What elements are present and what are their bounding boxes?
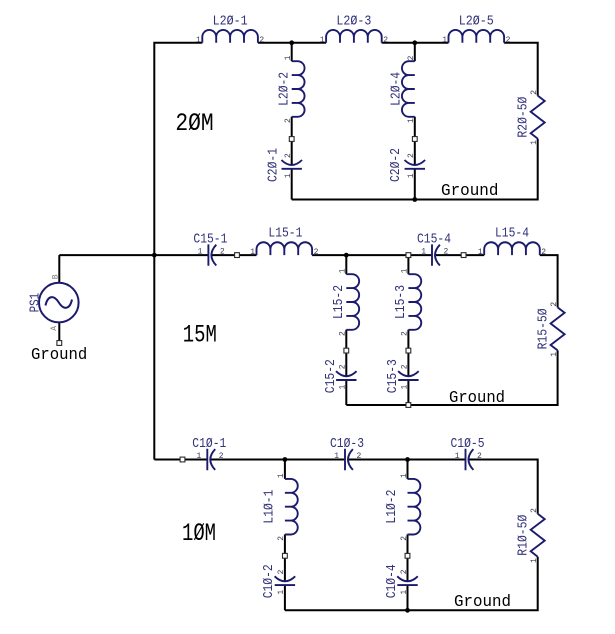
svg-text:L15-4: L15-4 (495, 226, 529, 242)
svg-text:1: 1 (198, 248, 203, 257)
svg-text:2: 2 (220, 248, 225, 257)
svg-text:1: 1 (401, 268, 410, 273)
svg-text:C1Ø-1: C1Ø-1 (192, 436, 226, 452)
svg-text:1: 1 (250, 248, 255, 257)
svg-text:PS1: PS1 (28, 293, 44, 313)
svg-text:1: 1 (478, 248, 483, 257)
svg-text:C15-4: C15-4 (417, 232, 451, 248)
svg-text:2ØM: 2ØM (175, 109, 213, 138)
svg-text:Ground: Ground (449, 389, 505, 408)
svg-text:C1Ø-3: C1Ø-3 (330, 436, 364, 452)
svg-text:C2Ø-2: C2Ø-2 (388, 148, 404, 182)
svg-text:C15-3: C15-3 (385, 359, 401, 393)
svg-text:2: 2 (339, 331, 348, 336)
svg-text:1: 1 (400, 473, 409, 478)
svg-text:L15-1: L15-1 (268, 226, 302, 242)
svg-text:1: 1 (196, 36, 201, 45)
svg-text:1: 1 (320, 36, 325, 45)
svg-text:1: 1 (277, 473, 286, 478)
svg-text:1: 1 (530, 140, 539, 145)
svg-text:2: 2 (277, 569, 286, 574)
svg-text:2: 2 (541, 248, 546, 257)
svg-text:1: 1 (334, 452, 339, 461)
svg-text:R15-5Ø: R15-5Ø (535, 308, 551, 349)
svg-text:1: 1 (421, 248, 426, 257)
svg-text:C15-1: C15-1 (193, 232, 227, 248)
svg-text:Ground: Ground (31, 346, 87, 365)
svg-text:L2Ø-5: L2Ø-5 (459, 13, 494, 29)
svg-text:L2Ø-4: L2Ø-4 (388, 72, 404, 106)
svg-text:2: 2 (259, 36, 264, 45)
svg-text:2: 2 (530, 90, 539, 95)
svg-text:2: 2 (550, 302, 559, 307)
svg-text:1: 1 (530, 558, 539, 563)
svg-text:A: A (50, 326, 59, 331)
svg-text:L15-2: L15-2 (331, 285, 347, 319)
svg-text:2: 2 (407, 153, 416, 158)
svg-text:1: 1 (407, 173, 416, 178)
svg-text:1: 1 (455, 452, 460, 461)
svg-text:1: 1 (277, 590, 286, 595)
svg-text:2: 2 (477, 452, 482, 461)
svg-text:2: 2 (444, 248, 449, 257)
svg-text:1: 1 (284, 55, 293, 60)
svg-text:L1Ø-2: L1Ø-2 (384, 490, 400, 524)
svg-text:2: 2 (277, 536, 286, 541)
svg-text:Ground: Ground (454, 593, 511, 612)
svg-text:2: 2 (401, 331, 410, 336)
svg-text:2: 2 (339, 364, 348, 369)
svg-text:1: 1 (407, 118, 416, 123)
svg-text:Ground: Ground (441, 182, 498, 201)
svg-text:2: 2 (401, 364, 410, 369)
svg-text:2: 2 (530, 508, 539, 513)
svg-text:B: B (52, 274, 61, 279)
svg-text:2: 2 (383, 36, 388, 45)
svg-text:L15-3: L15-3 (393, 285, 409, 319)
svg-text:1: 1 (442, 36, 447, 45)
svg-text:1: 1 (339, 268, 348, 273)
svg-text:C1Ø-5: C1Ø-5 (451, 436, 485, 452)
svg-text:1: 1 (284, 173, 293, 178)
svg-text:C2Ø-1: C2Ø-1 (266, 148, 282, 182)
svg-text:2: 2 (506, 36, 511, 45)
svg-text:2: 2 (284, 118, 293, 123)
svg-text:1: 1 (196, 452, 201, 461)
svg-text:1: 1 (339, 385, 348, 390)
svg-text:R2Ø-5Ø: R2Ø-5Ø (516, 97, 532, 138)
svg-text:1: 1 (550, 352, 559, 357)
svg-text:1: 1 (401, 385, 410, 390)
svg-text:1: 1 (400, 590, 409, 595)
svg-text:2: 2 (400, 536, 409, 541)
svg-text:R1Ø-5Ø: R1Ø-5Ø (515, 515, 531, 556)
svg-text:L2Ø-3: L2Ø-3 (336, 13, 371, 29)
svg-text:2: 2 (357, 452, 362, 461)
svg-text:2: 2 (407, 55, 416, 60)
svg-text:1ØM: 1ØM (182, 519, 216, 548)
svg-text:C15-2: C15-2 (323, 359, 339, 393)
svg-text:L1Ø-1: L1Ø-1 (262, 490, 278, 524)
svg-text:L2Ø-2: L2Ø-2 (276, 72, 292, 106)
svg-text:2: 2 (284, 153, 293, 158)
svg-text:2: 2 (314, 248, 319, 257)
svg-text:L2Ø-1: L2Ø-1 (213, 13, 248, 29)
svg-text:15M: 15M (183, 321, 217, 350)
svg-text:2: 2 (400, 569, 409, 574)
svg-text:2: 2 (219, 452, 224, 461)
svg-text:C1Ø-2: C1Ø-2 (261, 564, 277, 598)
svg-text:C1Ø-4: C1Ø-4 (384, 564, 400, 598)
